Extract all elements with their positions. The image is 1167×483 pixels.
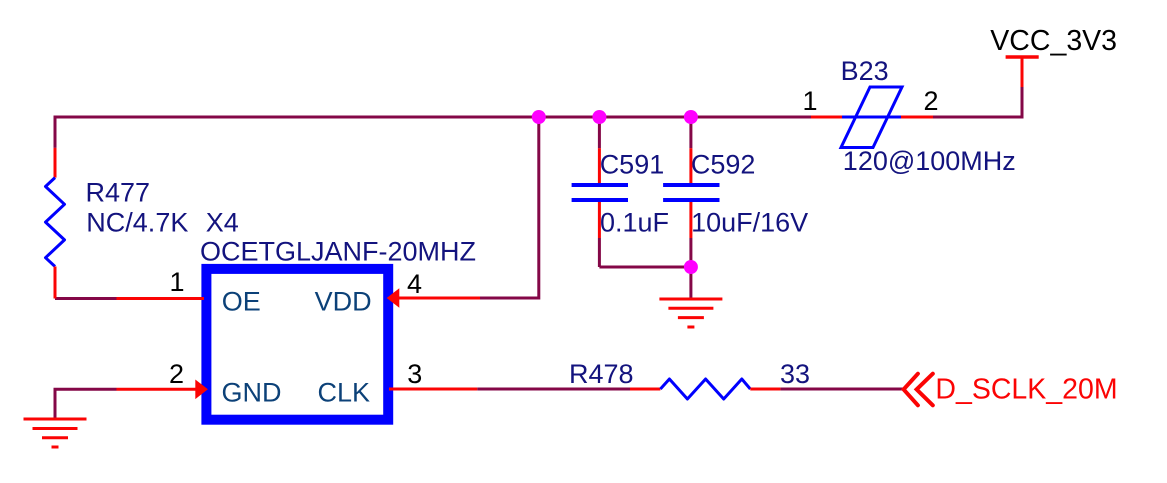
junction dot at C591 top: [592, 110, 606, 124]
svg-text:3: 3: [407, 359, 422, 389]
svg-text:120@100MHz: 120@100MHz: [843, 146, 1016, 176]
svg-text:R478: R478: [569, 359, 634, 389]
capacitor C592: [663, 148, 719, 238]
pin name CLK: [318, 377, 371, 407]
resistor R477: [46, 148, 65, 299]
pin 3 lead: [389, 388, 477, 391]
svg-text:C592: C592: [691, 150, 756, 180]
junction dot at C592 top: [684, 110, 698, 124]
power symbol VCC_3V3: [1006, 57, 1039, 87]
svg-text:4: 4: [407, 269, 422, 299]
pin number 4: [407, 269, 422, 299]
svg-text:GND: GND: [222, 377, 282, 407]
net name VCC_3V3: [990, 25, 1117, 57]
wire top rail right segment: [933, 87, 1022, 117]
svg-text:B23: B23: [841, 56, 889, 86]
wire pin2 to ground: [55, 389, 117, 419]
svg-text:D_SCLK_20M: D_SCLK_20M: [935, 373, 1117, 405]
ferrite bead B23: [811, 87, 933, 148]
value 120@100MHz: [843, 146, 1016, 176]
pin number 1: [170, 267, 185, 297]
refdes X4: [206, 208, 239, 238]
svg-text:1: 1: [170, 267, 185, 297]
pin number 2: [169, 359, 184, 389]
wire R478 to net connector: [780, 388, 903, 391]
label C591: [600, 150, 665, 180]
value 10uF/16V: [691, 208, 808, 238]
resistor R478: [630, 379, 780, 399]
svg-text:2: 2: [924, 86, 939, 116]
value 33: [780, 359, 810, 389]
label R477: [86, 178, 151, 208]
oscillator X4 body: [206, 269, 388, 420]
value NC/4.7K: [86, 208, 188, 238]
svg-text:OE: OE: [222, 287, 261, 317]
pin name OE: [222, 287, 261, 317]
svg-text:VDD: VDD: [315, 287, 372, 317]
junction dot at C592 bottom: [684, 260, 698, 274]
value 0.1uF: [600, 208, 669, 238]
bead pin number 1: [803, 86, 818, 116]
bead pin number 2: [924, 86, 939, 116]
pin name VDD: [315, 287, 372, 317]
svg-text:C591: C591: [600, 150, 665, 180]
pin 4 lead with arrow: [387, 288, 480, 308]
wire C591 branch: [598, 117, 601, 267]
label R478: [569, 359, 634, 389]
svg-text:NC/4.7K: NC/4.7K: [86, 208, 188, 238]
wire capacitor bottom rail: [599, 266, 691, 269]
pin name GND: [222, 377, 282, 407]
wire pin1 bottom horizontal: [55, 297, 117, 300]
wire top rail left segment: [55, 117, 811, 148]
pin 1 lead: [117, 297, 205, 300]
net name D_SCLK_20M: [935, 373, 1117, 405]
pin 2 lead with arrow: [117, 380, 208, 400]
svg-text:R477: R477: [86, 178, 151, 208]
svg-text:2: 2: [169, 359, 184, 389]
svg-text:10uF/16V: 10uF/16V: [691, 208, 808, 238]
junction dot at VDD branch: [532, 110, 546, 124]
value OCETGLJANF-20MHZ: [200, 237, 476, 267]
wire C592 branch: [689, 117, 692, 299]
label B23: [841, 56, 889, 86]
off-page connector chevron: [904, 374, 933, 406]
wire pin3 to R478: [477, 388, 630, 391]
wire VDD branch from rail to pin 4: [480, 117, 539, 298]
capacitor C591: [572, 148, 628, 238]
svg-text:33: 33: [780, 359, 810, 389]
ground under C592: [659, 299, 722, 327]
svg-text:VCC_3V3: VCC_3V3: [990, 25, 1117, 57]
label C592: [691, 150, 756, 180]
svg-text:X4: X4: [206, 208, 239, 238]
svg-text:OCETGLJANF-20MHZ: OCETGLJANF-20MHZ: [200, 237, 476, 267]
svg-text:0.1uF: 0.1uF: [600, 208, 669, 238]
svg-text:1: 1: [803, 86, 818, 116]
svg-text:CLK: CLK: [318, 377, 371, 407]
ground bottom left: [24, 419, 87, 447]
pin number 3: [407, 359, 422, 389]
